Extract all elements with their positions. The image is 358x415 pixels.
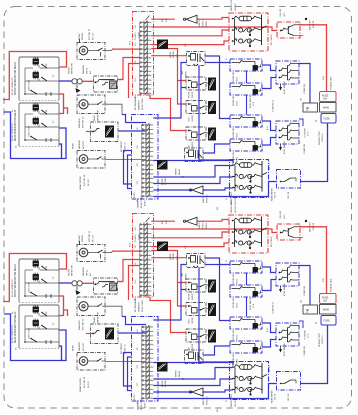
svg-text:W18: W18 (137, 145, 139, 149)
svg-text:REAR WIPER MOTOR RELAY: REAR WIPER MOTOR RELAY (14, 109, 17, 141)
svg-text:WASHER: WASHER (78, 139, 81, 149)
svg-text:POINT 2: POINT 2 (207, 194, 209, 203)
svg-text:F8: F8 (316, 120, 318, 122)
svg-text:W16: W16 (130, 41, 132, 45)
svg-text:MOTOR 22: MOTOR 22 (83, 116, 85, 128)
svg-text:WIPER: WIPER (82, 32, 84, 40)
svg-text:COMB SW: COMB SW (304, 144, 306, 154)
svg-text:DOOR SW: DOOR SW (233, 128, 235, 138)
svg-text:W/ INT WIPER 24: W/ INT WIPER 24 (12, 123, 14, 141)
svg-text:NOISE: NOISE (170, 51, 172, 58)
svg-text:REAR: REAR (93, 115, 96, 121)
svg-text:4: 4 (149, 74, 150, 76)
svg-text:REAR WIPER: REAR WIPER (271, 188, 274, 201)
svg-text:W18: W18 (137, 127, 139, 131)
svg-text:TO W16: TO W16 (135, 32, 137, 40)
svg-text:WIPER 24: WIPER 24 (322, 134, 324, 142)
svg-text:SW 24: SW 24 (275, 192, 277, 198)
svg-text:FRONT: FRONT (79, 32, 81, 40)
svg-text:JUNCTION: JUNCTION (29, 126, 31, 137)
svg-text:FRONT WIPER MOTOR RELAY: FRONT WIPER MOTOR RELAY (14, 61, 17, 95)
svg-text:SW 22: SW 22 (87, 67, 89, 74)
svg-text:22W B: 22W B (206, 20, 208, 27)
svg-text:RELAY: RELAY (178, 168, 181, 175)
svg-text:EARTH: EARTH (202, 195, 205, 203)
svg-text:W16: W16 (135, 43, 137, 47)
svg-text:EARTH: EARTH (198, 19, 201, 27)
svg-text:1: 1 (151, 123, 152, 125)
svg-text:UNIT 22: UNIT 22 (235, 3, 237, 11)
svg-text:W/ 1.25: W/ 1.25 (93, 32, 95, 40)
svg-text:INTERMITTENT: INTERMITTENT (319, 130, 321, 145)
svg-text:B 0.5: B 0.5 (267, 126, 269, 130)
svg-text:REAR WIPER: REAR WIPER (79, 176, 82, 190)
svg-text:OFF ON: OFF ON (288, 191, 290, 199)
svg-text:INT WIPER: INT WIPER (121, 141, 123, 152)
svg-text:L/W: L/W (185, 43, 187, 47)
svg-text:COMB SW: COMB SW (304, 84, 306, 94)
svg-text:W/ INT WIPER 22: W/ INT WIPER 22 (12, 77, 14, 95)
svg-text:MAIN: MAIN (323, 107, 329, 110)
svg-text:BATTERY: BATTERY (309, 20, 312, 30)
svg-text:FILTER: FILTER (165, 178, 167, 185)
svg-text:24: 24 (183, 176, 185, 178)
svg-text:UNIT 24: UNIT 24 (235, 197, 237, 205)
svg-text:0.85: 0.85 (166, 18, 168, 22)
svg-text:B/W: B/W (162, 18, 164, 22)
svg-text:BODY EARTH: BODY EARTH (283, 141, 286, 154)
svg-text:HARNESS: HARNESS (137, 197, 140, 208)
svg-text:2: 2 (149, 39, 150, 41)
svg-text:W16: W16 (135, 25, 137, 29)
svg-text:KEY SW 22: KEY SW 22 (271, 34, 273, 45)
svg-text:5B: 5B (306, 107, 309, 110)
svg-text:WIPER: WIPER (176, 168, 178, 175)
svg-text:WIPER SW: WIPER SW (98, 110, 100, 121)
svg-text:MOTOR 24: MOTOR 24 (84, 174, 86, 186)
svg-text:5: 5 (151, 195, 152, 197)
svg-text:CONN: CONN (139, 32, 141, 38)
svg-text:WASHER: WASHER (78, 118, 81, 128)
svg-text:WIPER SW: WIPER SW (72, 63, 74, 74)
svg-text:LH 22: LH 22 (237, 77, 239, 82)
svg-text:W18: W18 (137, 163, 139, 167)
svg-text:LH 22: LH 22 (237, 157, 239, 162)
svg-text:DOOR SW: DOOR SW (233, 96, 235, 106)
svg-text:MOTOR 22: MOTOR 22 (89, 28, 91, 40)
svg-text:4: 4 (151, 177, 152, 179)
svg-text:NOISE: NOISE (162, 178, 164, 185)
svg-text:W18: W18 (137, 181, 139, 185)
svg-text:BODY EARTH: BODY EARTH (283, 81, 286, 94)
svg-text:FRONT: FRONT (69, 66, 71, 74)
svg-text:W16: W16 (135, 78, 137, 82)
svg-text:POINT 1: POINT 1 (203, 18, 205, 27)
svg-text:3: 3 (151, 159, 152, 161)
svg-text:JUNCTION: JUNCTION (29, 80, 31, 91)
svg-text:W/ 0.85: W/ 0.85 (88, 178, 90, 186)
svg-text:FUSIBLE LINK: FUSIBLE LINK (331, 76, 333, 90)
svg-text:ACC: ACC (283, 12, 286, 17)
svg-text:3: 3 (149, 56, 150, 58)
svg-text:MOTOR: MOTOR (83, 141, 85, 149)
svg-text:W-18 CONN: W-18 CONN (141, 196, 143, 208)
svg-text:BODY EARTH: BODY EARTH (249, 95, 252, 108)
svg-text:DOOR SW: DOOR SW (233, 72, 235, 82)
svg-text:W-16 CONN: W-16 CONN (142, 98, 144, 110)
svg-text:0.5 G: 0.5 G (308, 131, 310, 136)
svg-text:5: 5 (149, 92, 150, 94)
svg-text:FUSE: FUSE (322, 95, 329, 97)
svg-text:WIPER: WIPER (192, 91, 194, 98)
svg-text:DOOR SW: DOOR SW (233, 152, 235, 162)
svg-text:WIPER CONT: WIPER CONT (231, 0, 233, 11)
svg-text:TO METER: TO METER (305, 128, 307, 138)
svg-text:REAR: REAR (72, 143, 75, 149)
svg-text:22W 5B: 22W 5B (313, 20, 315, 28)
svg-text:INSTRUMENT: INSTRUMENT (135, 96, 137, 110)
svg-text:WIPER: WIPER (192, 115, 194, 122)
svg-text:FILTER: FILTER (173, 51, 175, 58)
svg-text:1: 1 (149, 21, 150, 23)
svg-text:22W: 22W (177, 54, 179, 58)
svg-text:HARNESS: HARNESS (138, 99, 141, 110)
svg-text:FRONT: FRONT (189, 91, 191, 98)
svg-text:M: M (82, 102, 84, 106)
svg-text:W/L: W/L (217, 207, 219, 210)
svg-text:IGN SW: IGN SW (280, 9, 282, 16)
svg-text:0.85: 0.85 (323, 76, 325, 80)
svg-text:BODY: BODY (145, 200, 147, 206)
svg-text:FUSE: FUSE (324, 119, 331, 121)
svg-text:LH 22: LH 22 (237, 133, 239, 138)
svg-text:W/L 0.5: W/L 0.5 (269, 164, 271, 170)
svg-text:LH 22: LH 22 (237, 101, 239, 106)
svg-text:COMB SW 22: COMB SW 22 (273, 100, 275, 112)
svg-text:BODY: BODY (134, 191, 136, 198)
svg-text:WASHER: WASHER (82, 64, 85, 74)
svg-text:2: 2 (151, 141, 152, 143)
svg-text:15A: 15A (323, 98, 328, 101)
svg-text:WIPER: WIPER (192, 141, 194, 148)
